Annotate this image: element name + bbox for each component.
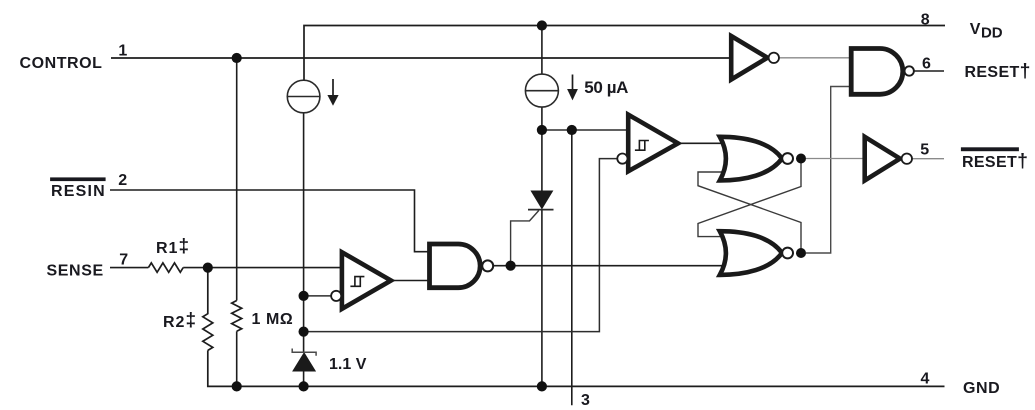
arrow at current source I2 (50 uA): [567, 75, 578, 101]
NAND gate U4: [851, 49, 914, 95]
svg-text:6: 6: [922, 56, 931, 73]
wire CT vertical to pin 3: [571, 130, 573, 405]
junction reference node branch: [299, 327, 309, 337]
comparator U2 (hysteresis): [331, 252, 391, 309]
arrow at current source I1: [327, 79, 338, 106]
wire NOR U5 output to buffer U8: [806, 158, 865, 160]
svg-text:RESIN: RESIN: [51, 183, 106, 200]
wire current source I1 output down to reference node: [303, 113, 305, 352]
junction top rail / I2: [537, 20, 547, 30]
current source I2: [525, 74, 558, 107]
junction GND at SCR Q1: [537, 381, 547, 391]
svg-text:VDD: VDD: [970, 21, 1003, 42]
wire SENSE line right of R1 to comparator U2: [183, 267, 342, 269]
wire NOR U6 output to NAND U4 lower input: [806, 87, 851, 254]
svg-text:1 MΩ: 1 MΩ: [252, 311, 294, 328]
wire SCR Q1 gate: [511, 211, 539, 266]
resistor R2: [203, 268, 213, 351]
zener diode D1 1.1 V: [292, 349, 316, 372]
wire comparator U2 output to NAND U3: [391, 280, 430, 282]
svg-text:8: 8: [921, 12, 930, 29]
wire buffer U7 output to NAND U4: [779, 57, 851, 59]
wire SENSE line left of R1 (pin 7): [110, 267, 148, 269]
svg-text:R2‡: R2‡: [163, 310, 197, 331]
wire CONTROL line (pin 1): [111, 57, 731, 59]
wire current source I2 output to CT node: [541, 107, 543, 192]
wire NAND U3 output to NOR U6 lower input: [493, 265, 723, 267]
svg-text:5: 5: [920, 142, 929, 159]
junction GND at 1M resistor: [232, 381, 242, 391]
svg-text:1.1 V: 1.1 V: [329, 356, 367, 373]
svg-text:GND: GND: [963, 380, 1000, 397]
wire zener D1 anode to GND: [303, 371, 305, 387]
label RESET-bar dagger (pin 5): [961, 147, 1028, 172]
wire RESIN line (pin 2): [110, 190, 430, 252]
wire NAND U4 output to pin 6: [914, 70, 944, 72]
label RESIN with overline: [50, 177, 106, 200]
junction NOR U6 output node: [796, 248, 806, 258]
wire comparator U1 output to NOR U5 upper input: [678, 142, 724, 144]
buffer U7 (inverter to NAND U4): [731, 36, 779, 80]
junction SENSE node: [203, 263, 213, 273]
NAND gate U3: [430, 244, 494, 288]
junction NOR U5 output node: [796, 154, 806, 164]
junction CT node B: [567, 125, 577, 135]
junction GND at zener D1: [299, 381, 309, 391]
current source I1: [287, 80, 320, 113]
NOR gate U6: [720, 231, 793, 275]
svg-text:3: 3: [581, 392, 590, 409]
junction CT node A: [537, 125, 547, 135]
svg-text:R1‡: R1‡: [156, 236, 190, 257]
svg-text:2: 2: [118, 172, 127, 189]
comparator U1 (hysteresis): [617, 115, 678, 172]
svg-text:4: 4: [921, 371, 930, 388]
svg-text:50 µA: 50 µA: [584, 78, 628, 97]
junction reference node at U2 input: [299, 291, 309, 301]
thyristor Q1 (SCR clamp): [528, 191, 554, 210]
wire VDD top rail (pin 8): [304, 26, 945, 81]
svg-text:1: 1: [118, 43, 127, 60]
svg-text:RESET†: RESET†: [962, 150, 1028, 172]
wire buffer U8 output to pin 5: [912, 158, 944, 160]
buffer U8 (inverter to pin 5): [865, 137, 912, 181]
svg-text:SENSE: SENSE: [47, 263, 104, 280]
NOR gate U5: [720, 137, 793, 181]
resistor R1: [148, 263, 183, 272]
wire GND rail (pin 4): [208, 350, 945, 386]
wire CT node to comparator U1 input: [542, 129, 628, 131]
svg-text:RESET†: RESET†: [965, 60, 1031, 82]
resistor 1 Mohm: [232, 301, 242, 332]
junction CONTROL node: [232, 53, 242, 63]
wire reference node to comparator U2 inverting input: [304, 295, 332, 297]
wire latch cross coupling upper output to lower input: [698, 163, 801, 237]
svg-text:CONTROL: CONTROL: [20, 55, 103, 72]
wire CONTROL junction to 1M resistor: [236, 58, 238, 301]
wire reference node branch to comparator U1 inverting input: [304, 159, 618, 332]
wire latch cross coupling lower output to upper input: [698, 172, 801, 249]
wire SCR Q1 cathode to GND: [541, 210, 543, 387]
wire current source I2 from top rail: [541, 26, 543, 75]
junction NAND U3 output node: [506, 261, 516, 271]
wire 1M resistor bottom to GND: [236, 331, 238, 386]
svg-text:7: 7: [119, 252, 128, 269]
